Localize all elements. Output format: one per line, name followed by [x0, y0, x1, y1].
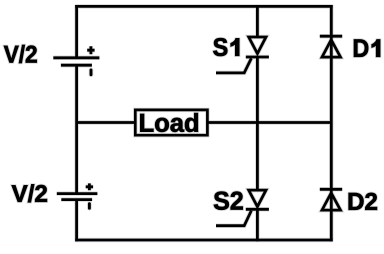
switch S2 gate lead — [216, 211, 251, 226]
wire middle leg centre — [256, 57, 259, 190]
battery B1 negative plate — [61, 64, 92, 67]
wire top rail — [75, 5, 333, 8]
load box — [135, 110, 207, 135]
soft halo underlayer (anti-alias imitation) — [53, 5, 342, 241]
battery B2 positive plate — [57, 192, 98, 195]
battery B2 negative plate — [61, 198, 92, 201]
battery B1 positive plate — [53, 56, 99, 59]
wire load left — [77, 121, 136, 124]
diode D1 triangle — [322, 40, 341, 57]
diode D2 triangle — [322, 193, 341, 210]
battery B2 plus sign — [86, 183, 93, 190]
switch S2 thyristor triangle — [249, 190, 266, 207]
label D1 — [354, 40, 380, 57]
switch S2 cathode bar — [246, 208, 269, 211]
wire middle leg upper — [256, 5, 259, 37]
switch S1 cathode bar — [246, 56, 269, 59]
battery B2 minus tick — [88, 204, 91, 209]
label Load — [140, 113, 198, 132]
battery B1 minus tick — [90, 70, 93, 75]
switch S1 thyristor triangle — [249, 37, 266, 54]
wire middle leg lower — [256, 209, 259, 241]
battery B1 plus sign — [87, 46, 94, 54]
label S1 — [213, 38, 239, 56]
label V/2 top source — [4, 45, 37, 63]
wire bottom rail — [75, 239, 333, 242]
label S2 — [214, 192, 243, 210]
wire left rail upper segment — [75, 5, 78, 58]
label V/2 bottom source — [12, 184, 47, 202]
label D2 — [349, 193, 377, 210]
switch S1 gate lead — [216, 58, 251, 73]
wire left rail lower segment — [75, 200, 78, 242]
diode D2 cathode bar — [320, 188, 342, 191]
wire right rail — [330, 5, 333, 241]
wire load right — [207, 121, 331, 124]
diode D1 cathode bar — [320, 35, 342, 38]
wire left rail middle segment — [75, 65, 78, 193]
